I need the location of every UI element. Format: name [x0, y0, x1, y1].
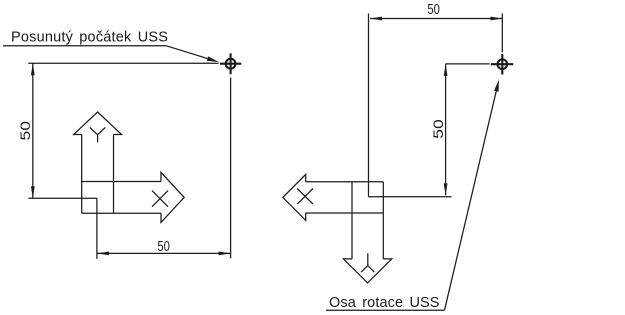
dim text 50 (rotated): [431, 119, 446, 139]
Y glyph (inverted): [361, 253, 374, 272]
vertical dimension line 50: [445, 64, 447, 196]
arrow up: [444, 64, 448, 76]
bottom extension line (from icon origin to right): [368, 196, 451, 198]
arrow left: [97, 252, 109, 256]
arrow left: [370, 17, 382, 21]
Y shaft right edge: [113, 135, 115, 214]
extension line top (y=63): [28, 62, 218, 64]
leader underline: [326, 309, 445, 311]
leader line to origin marker: [166, 46, 210, 60]
svg-text:Posunutý počátek USS: Posunutý počátek USS: [11, 30, 168, 46]
leader arrowhead: [207, 56, 219, 62]
arrow up: [31, 63, 35, 75]
label text "Osa rotace USS": [329, 295, 440, 311]
Y shaft right edge: [382, 182, 384, 259]
X shaft top edge: [82, 181, 161, 183]
arrow right: [219, 252, 231, 256]
Y arrowhead (down): [343, 259, 391, 283]
bottom dimension 50: left extension line: [96, 198, 98, 259]
X shaft bottom edge: [306, 212, 384, 214]
bottom dimension line: [97, 252, 231, 254]
vertical dimension line 50: [32, 63, 34, 198]
svg-text:50: 50: [18, 121, 33, 141]
left extension line (down to icon origin): [368, 14, 370, 197]
svg-text:50: 50: [157, 239, 170, 255]
svg-text:50: 50: [427, 2, 440, 18]
leader underline: [3, 45, 166, 47]
X arrowhead (left): [283, 174, 306, 220]
dim text 50: [157, 239, 170, 255]
Y shaft left edge: [351, 182, 353, 259]
svg-text:Osa rotace USS: Osa rotace USS: [329, 295, 440, 311]
Y glyph: [90, 127, 106, 142]
right extension line: [501, 14, 503, 53]
Y arrowhead (up): [74, 112, 122, 135]
arrow down: [31, 186, 35, 198]
arrow down: [444, 183, 448, 195]
extension line bottom (y=198): [28, 197, 97, 199]
origin marker (circle-cross) right: [491, 54, 514, 75]
UCS icon left: Y shaft left edge: [81, 135, 83, 214]
dim text 50 (rotated): [18, 121, 33, 141]
dim text 50: [427, 2, 440, 18]
arrow right: [491, 17, 503, 21]
label text "Posunutý počátek USS": [11, 30, 168, 46]
svg-text:50: 50: [431, 119, 446, 139]
leader arrowhead: [494, 80, 499, 92]
X shaft bottom edge: [82, 212, 161, 214]
top dimension line 50: [370, 18, 503, 20]
extension line from marker to vertical dim: [446, 63, 490, 65]
leader line from text to marker: [445, 90, 497, 311]
right extension line (below marker): [230, 78, 232, 259]
origin marker (circle-cross) left: [220, 53, 241, 74]
UCS icon right: X shaft top edge: [306, 181, 384, 183]
X glyph: [152, 191, 168, 207]
X glyph: [297, 189, 313, 205]
X arrowhead (right): [161, 172, 184, 222]
